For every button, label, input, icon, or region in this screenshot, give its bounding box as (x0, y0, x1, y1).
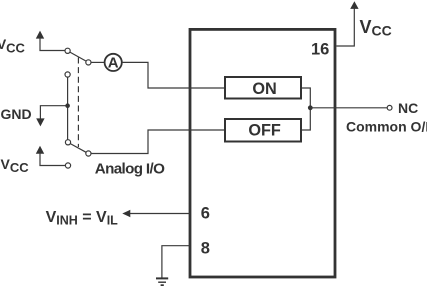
svg-text:NC: NC (398, 100, 418, 116)
svg-text:A: A (108, 54, 119, 71)
svg-text:ON: ON (252, 80, 276, 98)
wire GND lead (40, 106, 67, 120)
terminal NC (387, 105, 392, 110)
switch S1 throw VCC (65, 48, 70, 53)
OFF box (225, 119, 301, 142)
svg-text:8: 8 (201, 240, 210, 258)
switch S1 throw GND (65, 72, 70, 77)
switch S2 pole (86, 151, 91, 156)
wire VCC2 lead (40, 153, 65, 165)
wire ON output (302, 88, 310, 108)
arrow up VCC top-left (36, 31, 44, 39)
svg-text:Analog I/O: Analog I/O (95, 161, 165, 178)
wire pin6 to VINH (130, 213, 191, 215)
switch S1 pole (86, 60, 91, 65)
svg-text:16: 16 (311, 41, 329, 59)
wire S1 pole to ammeter (91, 61, 105, 63)
arrow up VCC pin16 (350, 1, 358, 9)
arrow left VINH (122, 210, 130, 217)
wire OFF output (302, 108, 310, 130)
gang dashed link (77, 58, 79, 148)
svg-text:Common O/I: Common O/I (346, 119, 427, 135)
junction dot GND bus (65, 103, 70, 108)
ground symbol (156, 278, 168, 285)
wire GND bus between throws (67, 77, 69, 140)
wire ammeter to ON input (122, 62, 224, 88)
svg-text:6: 6 (201, 205, 210, 223)
IC U1 outline (190, 29, 335, 277)
switch S2 lever (70, 144, 86, 153)
ON box (225, 77, 301, 99)
switch S2 throw VCC (65, 163, 70, 168)
wire pin16 to VCC (336, 8, 354, 46)
switch S2 throw GND (65, 140, 70, 145)
switch S1 lever (70, 52, 86, 61)
wire pin8 to ground (162, 246, 190, 278)
junction dot common output (308, 105, 313, 110)
arrow up VCC bottom-left (36, 146, 44, 154)
ammeter A (105, 54, 122, 71)
svg-text:OFF: OFF (248, 122, 281, 140)
arrow down GND (36, 118, 44, 126)
wire common output to NC (310, 107, 387, 109)
svg-text:GND: GND (1, 106, 32, 122)
wire VCC1 lead (40, 38, 65, 51)
wire S2 pole to OFF input (91, 130, 224, 154)
